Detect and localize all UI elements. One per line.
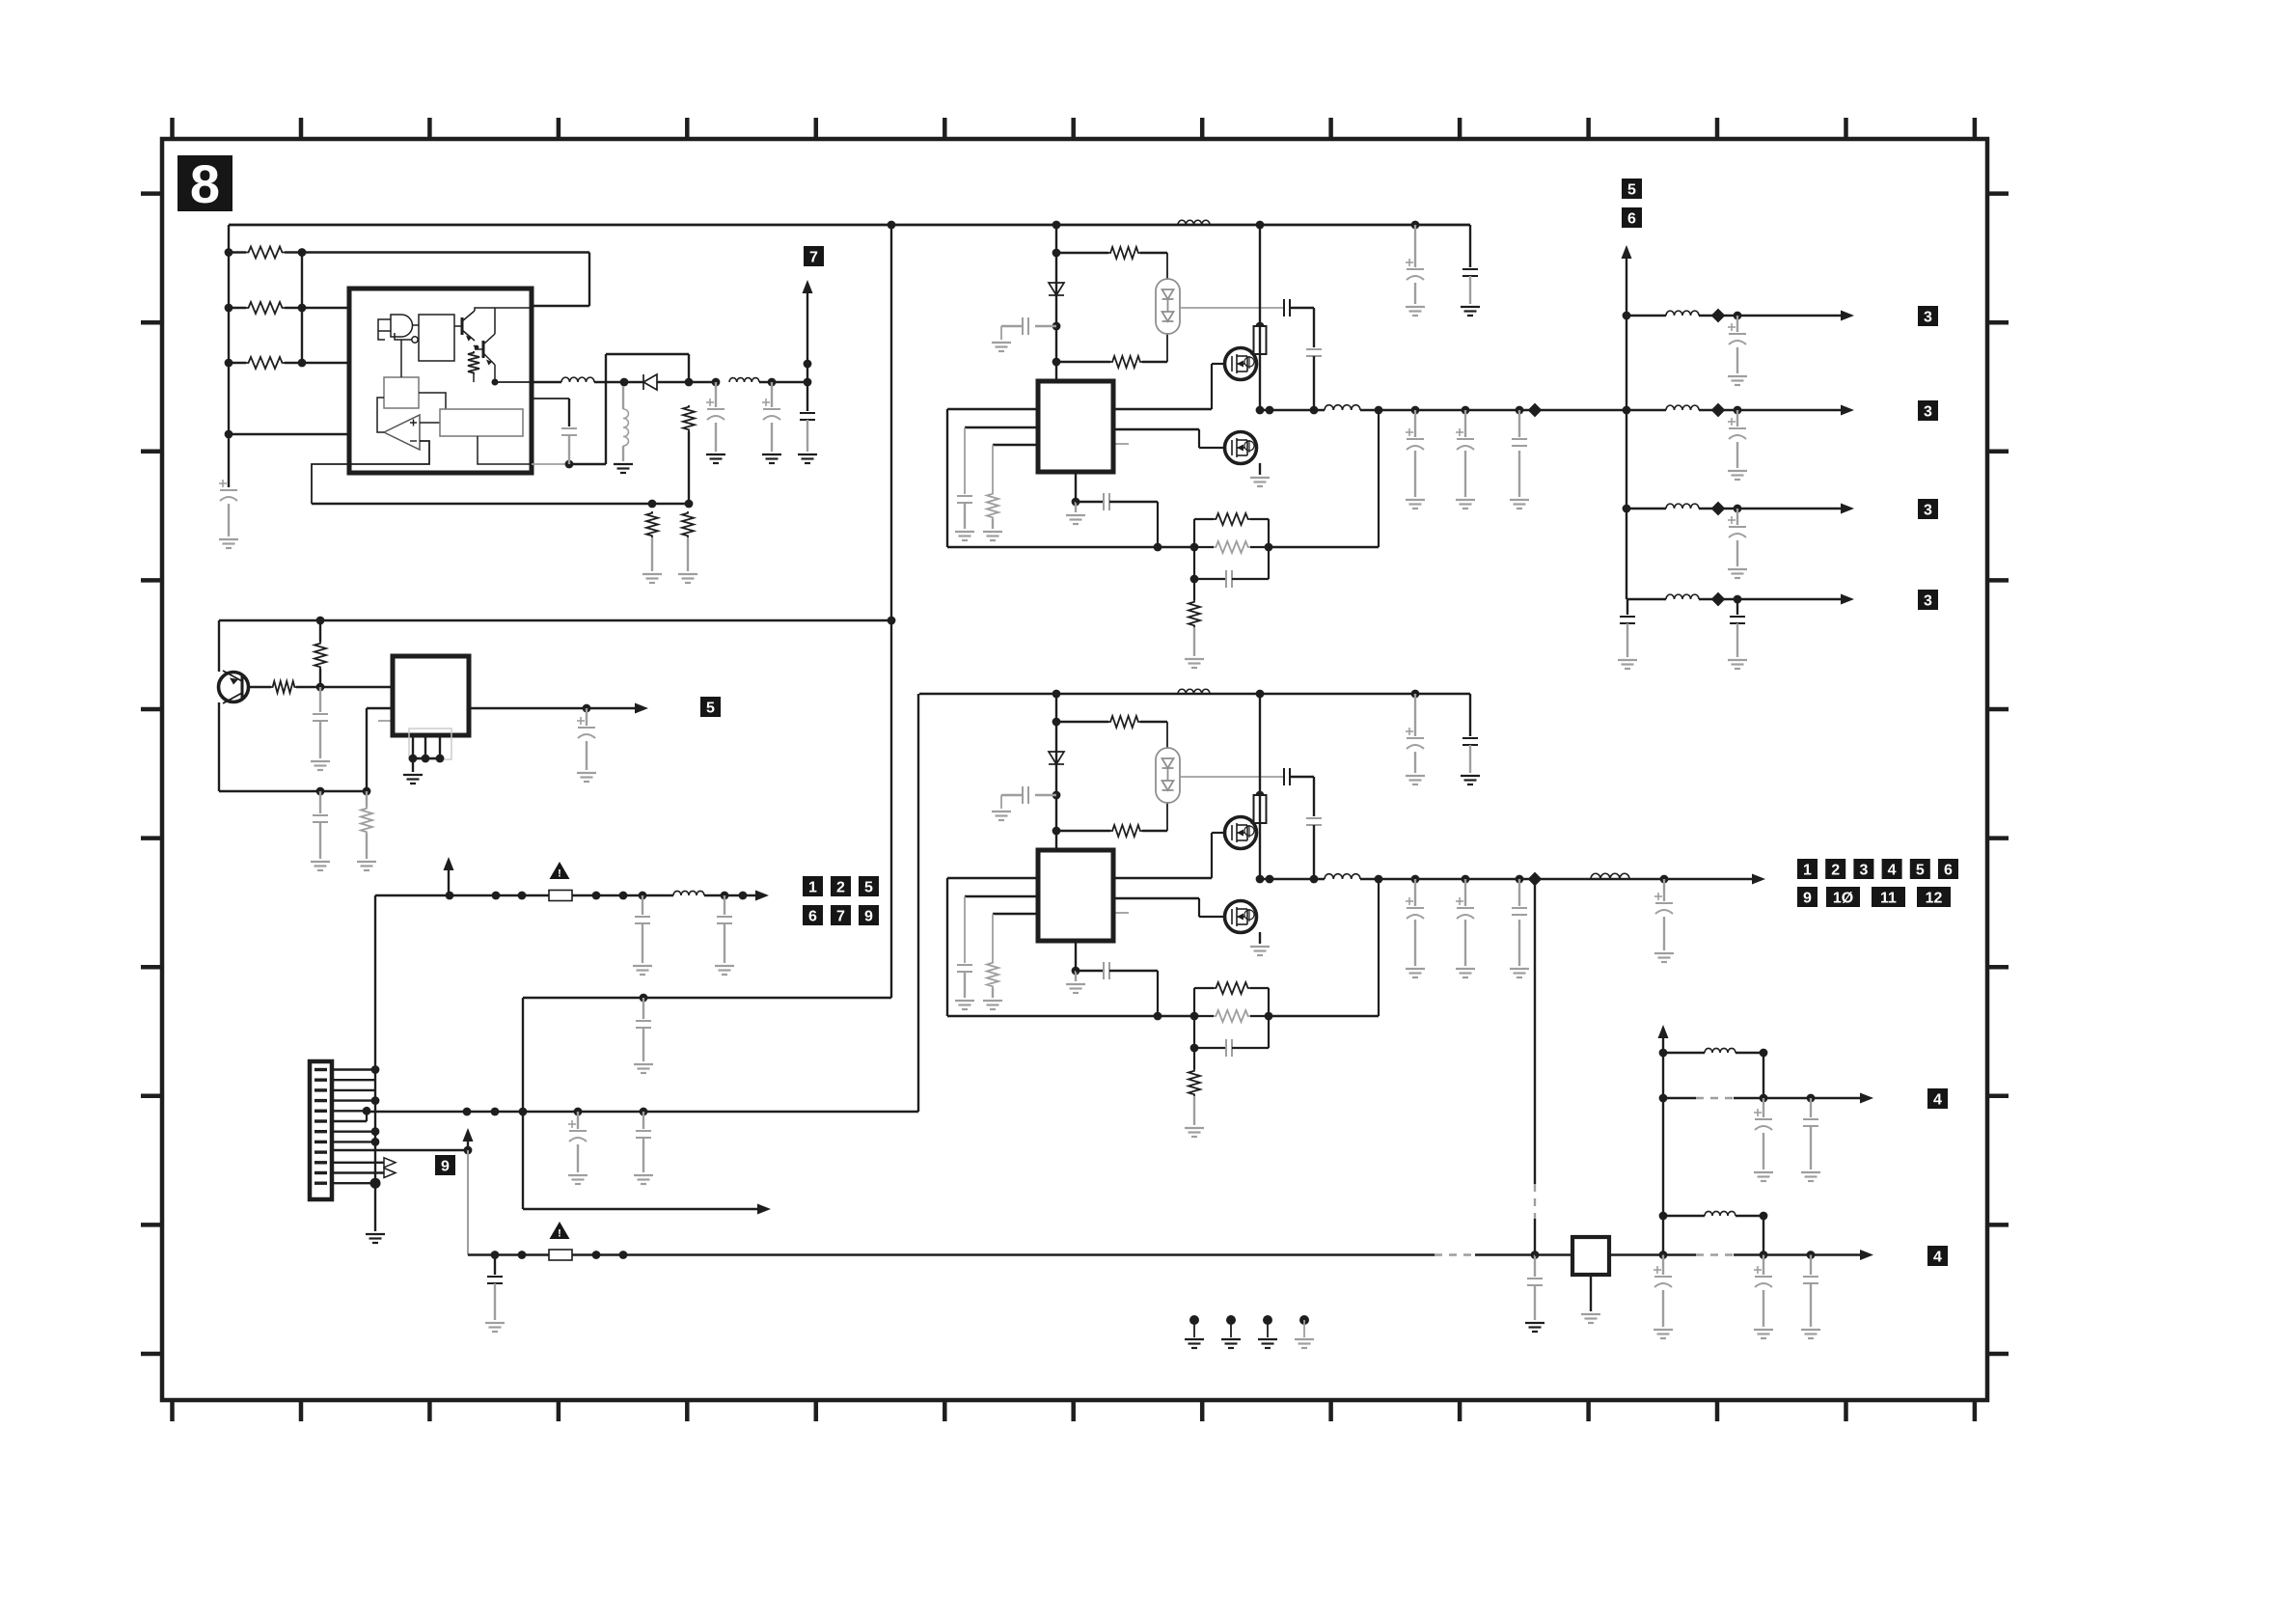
arrow branch2 arrow — [1841, 405, 1854, 416]
capacitor conv1 Cb — [1023, 317, 1028, 335]
svg-text:9: 9 — [864, 908, 873, 924]
wire conv2 boot drop2 — [1313, 825, 1315, 879]
arrow row1300 arrow — [1860, 1250, 1873, 1260]
arrow aux arrow — [757, 1204, 771, 1215]
ground TP3 ground — [1258, 1339, 1277, 1348]
svg-text:7: 7 — [836, 908, 845, 924]
capacitor conv2 Cc — [957, 965, 972, 972]
wire gate in1 — [385, 318, 391, 320]
resistor conv1 Rfb2 — [1214, 541, 1250, 553]
wire R2 to IC — [302, 307, 349, 309]
ground C16 ground — [1754, 1172, 1773, 1181]
capacitor C19 (polarized) — [1755, 1277, 1772, 1287]
node R3 out — [298, 359, 307, 368]
wire conv1 boot row2 — [1290, 307, 1314, 309]
wire R5 bottom — [688, 431, 690, 504]
wire branch C2 lead — [1736, 410, 1738, 426]
ground conv1 Cb ground — [992, 343, 1011, 351]
ground C6 ground — [311, 761, 330, 770]
wire Q3 base — [248, 686, 271, 688]
node out node2 — [768, 378, 777, 387]
resistor conv2 Rfb2 — [1214, 1010, 1250, 1022]
wire TP1 lead — [1193, 1320, 1195, 1337]
label box ref 5 — [700, 697, 721, 717]
resistor R10 — [361, 807, 372, 834]
transistor conv2 Q-low (MOSFET) — [1225, 901, 1257, 933]
wire Q3 rail lower — [218, 702, 220, 791]
svg-text:4: 4 — [1933, 1249, 1942, 1265]
wire L6 in — [1663, 1215, 1705, 1217]
inductor conv2 L-in — [1178, 689, 1210, 694]
node conv2 bus n3 — [1411, 690, 1420, 699]
wire conv2 Rfb3 lead2 — [1193, 1096, 1195, 1125]
wire choke lead2 — [622, 446, 624, 461]
capacitor C9 — [635, 917, 650, 923]
node bus n4 — [574, 1108, 583, 1116]
wire conv2 Rfb3 lead — [1193, 1048, 1195, 1069]
wire fuse2 row b — [572, 1253, 1435, 1255]
wire conv2 Rt lead — [992, 988, 994, 998]
wire conv2 sw row a — [1260, 878, 1325, 880]
wire conv2 comp pin — [1075, 941, 1077, 971]
svg-text:!: ! — [558, 868, 561, 880]
svg-text:7: 7 — [809, 249, 818, 265]
wire U1 out pin — [532, 381, 561, 383]
resistor conv2 Rfb1 — [1214, 982, 1250, 994]
svg-text:6: 6 — [808, 908, 817, 924]
diode D1 — [643, 374, 657, 390]
wire link bus drop — [890, 225, 892, 620]
ground conv2 Rt ground — [983, 1001, 1002, 1009]
node br n8 — [1807, 1094, 1816, 1103]
fuse F2 — [549, 1250, 572, 1260]
wire output to pin — [495, 381, 532, 383]
wire pin4 wire — [332, 1099, 375, 1101]
arrow U2 out arrow — [635, 703, 648, 714]
node branch3 n2 — [1734, 505, 1742, 513]
svg-text:3: 3 — [1924, 309, 1932, 325]
wire comp cap lead — [568, 399, 570, 426]
node branch4 n1 — [1711, 592, 1726, 607]
ground conv1 Rt ground — [983, 532, 1002, 540]
wire conv2 gate1 a — [1113, 877, 1212, 879]
ground branch C3 ground — [1728, 569, 1747, 578]
wire conv2 Cin2 lead — [1469, 745, 1471, 773]
ground conv2 Cin2 ground — [1461, 776, 1480, 784]
wire C13 lead — [642, 1112, 644, 1129]
wire row1138 a — [1663, 1097, 1696, 1099]
node U2 p2 — [422, 755, 430, 763]
wire conv2 fb riser — [1378, 879, 1380, 1016]
wire R4 bottom — [473, 374, 475, 382]
wire pin6 wire — [332, 1120, 367, 1122]
wire U2 pin2 — [424, 735, 426, 758]
wire C4 lead — [771, 382, 773, 407]
diode conv1 D-boot — [1049, 283, 1064, 295]
wire conv1 Rfb2 l — [1194, 546, 1214, 548]
node f2 n3 — [592, 1251, 601, 1259]
wire C6 lead2 — [319, 721, 321, 758]
node test point TP3 — [1263, 1315, 1272, 1325]
capacitor conv1 Cout2 (polarized) — [1457, 439, 1474, 450]
node conv1 sw n7 — [1516, 406, 1524, 415]
node f2 n1 — [491, 1251, 500, 1259]
wire divider link — [301, 253, 303, 364]
label box ref r1-6 — [1938, 859, 1958, 879]
node conv2 bus n1 — [1052, 690, 1061, 699]
wire conv2 loop left — [946, 878, 948, 1016]
node conv2 sw n6 — [1462, 875, 1470, 884]
inductor L4 — [673, 891, 704, 895]
wire Q3 rail upper — [218, 620, 220, 672]
node rail-opamp — [225, 430, 233, 439]
node conv2 ch n1 — [1052, 718, 1061, 727]
wire R10 lead2 — [366, 834, 368, 859]
inductor conv2 L-out — [1325, 874, 1360, 879]
wire pin12 wire — [332, 1182, 375, 1184]
capacitor C4 (polarized) — [763, 409, 780, 420]
wire br right riser a — [1763, 1053, 1764, 1098]
node uf node — [640, 994, 648, 1003]
resistor conv1 R-opto2 — [1110, 356, 1142, 368]
node conv1 ch n3 — [1052, 358, 1061, 367]
capacitor conv1 Cout1 (polarized) — [1407, 439, 1424, 450]
node conv1 ch n1 — [1052, 249, 1061, 258]
node rail-R1 — [225, 248, 233, 257]
svg-text:3: 3 — [1924, 592, 1932, 609]
wire pin5 wire — [332, 1110, 367, 1112]
capacitor conv2 Cb — [1023, 786, 1028, 804]
label box ref 7 — [804, 246, 824, 266]
latch U1b — [419, 315, 454, 361]
wire conv1 boot row — [1180, 307, 1284, 309]
capacitor C8 (polarized) — [578, 728, 595, 738]
resistor R8 — [271, 681, 296, 693]
wire br right riser b — [1763, 1216, 1764, 1255]
node conv2 sw n7 — [1516, 875, 1524, 884]
arrow Q2 emitter — [486, 360, 492, 366]
ground C9 ground — [633, 966, 652, 975]
ground conv1 Qlow ground — [1250, 478, 1270, 486]
node rail-R2 — [225, 304, 233, 313]
wire link bus — [219, 619, 891, 621]
node conv1 bus n1 — [1052, 221, 1061, 230]
wire conv2 gate1 c — [1212, 832, 1224, 834]
svg-text:9: 9 — [1803, 890, 1812, 906]
wire R2 left — [229, 307, 246, 309]
Q3 collector — [223, 671, 242, 681]
wire C18 lead — [1662, 1255, 1664, 1276]
wire conv2 Cb lead2 — [1001, 794, 1023, 796]
ground C7 ground — [311, 862, 330, 870]
node conv2 ch n2 — [1052, 791, 1061, 800]
ground conv2 Cout1 ground — [1406, 969, 1425, 977]
resistor conv1 R-opto1 — [1108, 247, 1140, 259]
wire conv1 Cout1 lead2 — [1414, 451, 1416, 497]
arrow pin10 (open) — [384, 1158, 396, 1168]
node f1 n4 — [619, 892, 628, 900]
wire Q1 collector — [462, 311, 475, 321]
node conv2 ch n3 — [1052, 827, 1061, 836]
wire feedback row — [312, 503, 689, 505]
node conv1 sw n8 — [1528, 403, 1543, 418]
label box ref r2-10 — [1826, 887, 1860, 907]
label box ref 6 — [803, 905, 823, 925]
capacitor conv2 Cout4 (polarized) — [1655, 903, 1673, 914]
wire C17 lead2 — [1810, 1126, 1812, 1169]
svg-text:12: 12 — [1926, 890, 1943, 906]
node conv1 sw n5 — [1411, 406, 1420, 415]
wire branch4 a — [1626, 598, 1666, 600]
wire C11 lead2 — [642, 1028, 644, 1061]
capacitor branch C2 (polarized) — [1729, 428, 1746, 439]
ground conv1 Cin1 ground — [1406, 307, 1425, 316]
resistor conv2 R-opto1 — [1108, 716, 1140, 728]
wire conv1 comp gnd lead — [1075, 502, 1077, 512]
wire conv2 Cout3 lead — [1518, 879, 1520, 906]
wire conv1 pinL2 — [965, 426, 1038, 428]
wire R1 loop to IC — [532, 305, 589, 307]
Q3 emitter — [223, 693, 242, 703]
wire conv2 Ropto1 out — [1140, 721, 1167, 723]
node conv2 sw n3 — [1310, 875, 1319, 884]
capacitor conv1 Cc — [957, 496, 972, 503]
wire row1300 b — [1734, 1253, 1862, 1255]
node conv1 fb n2 — [1190, 543, 1199, 552]
ground C3 ground — [706, 454, 725, 463]
wire conv1 gate1 a — [1113, 408, 1212, 410]
wire pin9 wire — [332, 1149, 468, 1151]
resistor R4 — [468, 351, 479, 374]
capacitor C3 (polarized) — [707, 409, 724, 420]
label box ref 6b — [1622, 207, 1642, 228]
node conv1 fb n1 — [1154, 543, 1162, 552]
wire C20 lead2 — [1810, 1283, 1812, 1327]
node branch4 n2 — [1734, 595, 1742, 604]
label box ref 7b — [831, 905, 851, 925]
label box ref 5c — [1622, 179, 1642, 199]
frame ruler ticks — [141, 118, 2009, 1421]
wire Q1 base — [454, 325, 462, 327]
wire conv2 Rfb1 r — [1250, 987, 1269, 989]
ground conv1 Cc ground — [955, 532, 974, 540]
transistor Q3 — [219, 673, 249, 702]
page number box 8 — [178, 153, 232, 214]
wire pin10 wire — [332, 1162, 384, 1164]
wire conv1 sw row a — [1260, 409, 1325, 411]
wire aux row — [523, 1208, 759, 1210]
wire to arrow 7 — [806, 293, 808, 382]
wire C5 lead — [806, 382, 808, 411]
node conv2 bus n2 — [1256, 690, 1265, 699]
ground conv1 comp ground — [1066, 515, 1085, 524]
wire conv1 gate2 b — [1198, 429, 1200, 448]
wire conv2 fb row — [947, 1015, 1194, 1017]
wire C9 lead — [642, 895, 643, 915]
wire conv1 pinL1 — [947, 408, 1038, 410]
capacitor branch C1 (polarized) — [1729, 334, 1746, 344]
wire conv1 pin stub — [1113, 443, 1129, 445]
wire main bus — [367, 1111, 918, 1113]
wire conv2 vcc chain — [1055, 694, 1057, 850]
ground TP2 ground — [1221, 1339, 1241, 1348]
wire conv2 gate2 c — [1199, 916, 1224, 918]
wire TP3 lead — [1267, 1320, 1269, 1337]
wire conv2 Cout3 lead2 — [1518, 920, 1520, 966]
resistor conv2 Rfb3 — [1189, 1069, 1200, 1096]
wire C16 lead — [1763, 1098, 1764, 1117]
svg-text:1Ø: 1Ø — [1833, 890, 1853, 906]
wire C9 lead2 — [642, 923, 643, 963]
wire dist bus — [1626, 253, 1627, 599]
connector pins — [314, 1070, 327, 1184]
inductor branch L2 — [1666, 405, 1699, 410]
wire U2 gnd lead — [412, 758, 414, 772]
wire conv2 top bus — [919, 693, 1470, 695]
wire conv2 Ropto1 in — [1056, 721, 1108, 723]
node base node — [316, 683, 325, 692]
node conv2 sw n5 — [1411, 875, 1420, 884]
wire osc up — [400, 340, 402, 377]
ground C12 ground — [568, 1175, 588, 1184]
wire conv1 Ropto1 in — [1056, 252, 1108, 254]
wire conv2 Cout2 lead — [1464, 879, 1466, 906]
arrow Q1 emitter — [466, 336, 472, 342]
transistor conv1 Q-high (MOSFET) — [1225, 348, 1257, 380]
svg-text:4: 4 — [1933, 1091, 1942, 1108]
optocoupler conv1 PC1 — [1156, 279, 1180, 334]
ground conv1 Cout1 ground — [1406, 500, 1425, 509]
wire branch3 a — [1626, 508, 1666, 509]
arrow br arrow up — [1658, 1025, 1669, 1038]
wire conv2 Cin1 lead — [1414, 694, 1416, 736]
wire U2 pin1 — [412, 735, 414, 758]
label box ref 5b — [859, 876, 879, 896]
ground conv1 Cout2 ground — [1456, 500, 1475, 509]
page frame — [162, 139, 1987, 1400]
wire ref bottom — [478, 436, 532, 464]
node pin4 node — [371, 1096, 380, 1105]
wire branch C2 lead2 — [1736, 442, 1738, 468]
node conv2 sw n8 — [1528, 872, 1543, 887]
node link bottom — [888, 617, 896, 625]
wire conv1 Rfb1 r — [1250, 518, 1269, 520]
wire R1 left — [229, 251, 246, 253]
wire C14 lead2 — [494, 1283, 496, 1320]
wire conv1 boot drop — [1313, 308, 1315, 347]
wire conv2 Rt drop — [992, 914, 994, 961]
wire D1 out — [657, 381, 716, 383]
wire C10 lead — [724, 895, 725, 915]
ground R7 ground — [678, 574, 697, 583]
wire R4 top — [474, 345, 477, 347]
wire conv2 opto anode — [1166, 722, 1168, 749]
wire U1 comp pin — [532, 398, 569, 399]
node test point TP2 — [1226, 1315, 1236, 1325]
ground C8 ground — [577, 773, 596, 782]
wire conv1 Rfb3 lead — [1193, 579, 1195, 600]
arrow pin11 (open) — [384, 1169, 396, 1178]
ground C5 ground — [798, 454, 817, 463]
transistor conv1 Q-low (MOSFET) — [1225, 432, 1257, 464]
wire conv2 pinL2 — [965, 895, 1038, 897]
ground C4 ground — [762, 454, 781, 463]
wire row1300 a — [1663, 1253, 1696, 1255]
wire conv1 Cout2 lead — [1464, 410, 1466, 437]
wire conv1 Cfb r — [1232, 578, 1269, 580]
filter FL1 — [1572, 1237, 1609, 1275]
capacitor C6 — [313, 714, 328, 721]
node pin7 node — [371, 1127, 380, 1136]
node conv1 sense node — [1256, 322, 1265, 331]
capacitor C18 (polarized) — [1654, 1277, 1672, 1287]
wire L6 out — [1736, 1215, 1763, 1217]
wire conv1 Cin1 lead — [1414, 225, 1416, 267]
svg-text:9: 9 — [441, 1158, 450, 1174]
wire conv2 feed riser — [917, 694, 919, 1112]
resistor R2 — [246, 302, 285, 314]
wire conv2 fb to out — [1269, 1015, 1379, 1017]
node out node1 — [712, 378, 721, 387]
svg-text:3: 3 — [1924, 502, 1932, 518]
inductor branch L3 — [1666, 504, 1699, 509]
wire conv2 Cc lead — [964, 972, 966, 998]
node conv2 fb n1 — [1154, 1012, 1162, 1021]
capacitor C7 — [313, 815, 328, 822]
ground conv2 comp ground — [1066, 984, 1085, 993]
wire R10 lead — [366, 791, 368, 807]
wire R6 lead — [651, 537, 653, 571]
wire Q1 emitter — [462, 330, 475, 341]
wire fuse1 row a — [375, 894, 549, 896]
ground U2 ground — [403, 775, 423, 784]
wire pin11 wire — [332, 1171, 384, 1173]
node conv2 sw n4 — [1375, 875, 1383, 884]
wire conv1 fb row — [947, 546, 1194, 548]
node branch1 n1 — [1711, 309, 1726, 323]
resistor R9 — [314, 642, 326, 669]
node fb divider node — [685, 500, 694, 509]
wire L1 out — [594, 381, 643, 383]
wire conv1 Ropto2 out — [1142, 361, 1167, 363]
wire C19 lead2 — [1763, 1290, 1764, 1327]
wire filter out — [1609, 1253, 1663, 1255]
wire conv1 loop left — [946, 409, 948, 547]
node pin5 node — [363, 1107, 371, 1115]
wire pin9 up — [467, 1135, 469, 1150]
wire C6 lead — [319, 687, 321, 712]
wire connector gnd rail — [374, 895, 376, 1231]
wire conv2 boot drop — [1313, 777, 1315, 816]
wire C7 lead2 — [319, 822, 321, 859]
capacitor branch C4b — [1730, 617, 1745, 623]
wire fuse2 row c — [1475, 1253, 1535, 1255]
wire conv2 Cc drop — [964, 896, 966, 963]
wire conv2 gate1 b — [1211, 833, 1213, 878]
node branch2 n1 — [1711, 403, 1726, 418]
resistor conv1 Rfb3 — [1189, 600, 1200, 627]
ground branch C4a ground — [1618, 660, 1637, 669]
inductor conv1 L-in — [1178, 220, 1210, 225]
svg-text:4: 4 — [1888, 862, 1897, 878]
label box ref 9b — [859, 905, 879, 925]
wire conv1 gate1 b — [1211, 364, 1213, 409]
wire conv2 Qlow src — [1259, 932, 1261, 944]
inductor L6 — [1705, 1211, 1736, 1216]
current sense resistor conv2 Rs — [1254, 795, 1267, 823]
node conv1 bus n3 — [1411, 221, 1420, 230]
wire C15 lead2 — [1534, 1285, 1536, 1320]
